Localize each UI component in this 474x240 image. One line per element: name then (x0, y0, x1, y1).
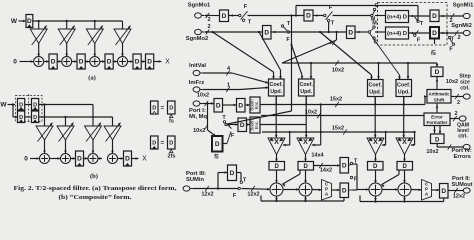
svg-text:Mi, Mq: Mi, Mq (189, 114, 207, 120)
svg-text:D: D (238, 102, 243, 109)
svg-text:2: 2 (329, 40, 332, 46)
svg-text:D: D (215, 141, 220, 148)
svg-text:10x2: 10x2 (446, 79, 458, 85)
svg-text:D: D (432, 30, 437, 37)
svg-text:D: D (147, 59, 152, 66)
svg-text:(a): (a) (88, 75, 96, 82)
svg-text:SUMin: SUMin (186, 177, 204, 183)
svg-text:2: 2 (457, 35, 460, 41)
svg-text:D: D (435, 69, 440, 76)
svg-text:15x2: 15x2 (332, 126, 344, 132)
svg-text:SgnMo2: SgnMo2 (186, 36, 209, 42)
svg-text:Formatter: Formatter (427, 120, 448, 126)
svg-text:10x2: 10x2 (193, 128, 205, 134)
svg-text:Coef.: Coef. (269, 82, 283, 88)
svg-text:Fig. 2. T/2-spaced filter. (a): Fig. 2. T/2-spaced filter. (a) Transpose… (14, 185, 177, 192)
svg-text:X: X (303, 139, 308, 146)
svg-text:ctrl.: ctrl. (460, 86, 470, 92)
svg-text:D: D (432, 13, 437, 20)
svg-text:Upd.: Upd. (270, 89, 282, 95)
svg-text:D: D (373, 164, 378, 170)
svg-text:SgnMo1: SgnMo1 (188, 3, 211, 9)
svg-text:Coef.: Coef. (397, 83, 411, 89)
svg-text:D: D (264, 29, 269, 36)
svg-text:Shift: Shift (434, 97, 445, 103)
svg-text:(b): (b) (90, 173, 98, 180)
svg-text:Enc.: Enc. (254, 121, 259, 130)
svg-text:ImFrz: ImFrz (189, 80, 205, 86)
svg-text:D: D (342, 187, 347, 194)
svg-text:0: 0 (13, 59, 17, 66)
svg-text:10x2: 10x2 (332, 68, 344, 74)
svg-text:1: 1 (227, 83, 230, 89)
svg-text:2: 2 (207, 24, 210, 30)
svg-text:D: D (169, 106, 173, 112)
svg-text:InitVal: InitVal (189, 63, 206, 69)
svg-text:D: D (27, 18, 32, 25)
svg-text:D: D (441, 188, 446, 195)
svg-text:D: D (435, 137, 440, 143)
svg-text:D: D (152, 106, 156, 112)
svg-text:12x2: 12x2 (247, 192, 259, 198)
svg-text:ctrl.: ctrl. (458, 134, 468, 140)
svg-text:D: D (306, 13, 311, 20)
svg-text:D: D (342, 162, 347, 169)
svg-text:Upd.: Upd. (300, 89, 312, 95)
svg-text:X: X (165, 59, 170, 66)
svg-text:D: D (403, 164, 408, 170)
svg-text:D: D (348, 29, 353, 36)
svg-text:D: D (77, 156, 82, 163)
svg-text:12x2: 12x2 (453, 194, 465, 200)
svg-text:M: M (371, 17, 376, 23)
svg-text:(n+4) D: (n+4) D (387, 31, 407, 37)
svg-text:Upd.: Upd. (398, 89, 410, 95)
svg-text:D: D (135, 59, 140, 66)
svg-text:SUMout: SUMout (452, 182, 473, 188)
svg-text:D: D (152, 141, 156, 147)
svg-text:Error: Error (431, 114, 443, 120)
svg-text:X: X (142, 156, 147, 163)
svg-text:D: D (230, 170, 235, 177)
svg-text:Upd.: Upd. (369, 89, 381, 95)
svg-text:fs: fs (431, 51, 436, 57)
svg-text:12x2: 12x2 (201, 192, 213, 198)
svg-text:D: D (51, 59, 56, 66)
svg-text:D: D (216, 102, 221, 109)
svg-text:D: D (169, 141, 173, 147)
svg-text:14x4: 14x4 (311, 153, 324, 159)
svg-text:W: W (0, 102, 7, 109)
svg-text:D: D (304, 164, 309, 170)
svg-text:C: C (374, 40, 378, 46)
svg-text:Errors: Errors (454, 154, 471, 160)
svg-text:0: 0 (24, 156, 28, 163)
svg-text:X: X (373, 139, 378, 146)
svg-text:Enc.: Enc. (254, 101, 259, 110)
svg-text:D: D (79, 59, 84, 66)
svg-text:10x2: 10x2 (197, 93, 209, 99)
svg-text:X: X (402, 139, 407, 146)
svg-text:SgnMi2: SgnMi2 (451, 23, 472, 29)
svg-text:10x2: 10x2 (305, 110, 317, 116)
svg-text:2: 2 (207, 17, 210, 23)
svg-text:D: D (125, 156, 130, 163)
svg-text:X: X (274, 139, 279, 146)
svg-text:Coef.: Coef. (368, 83, 382, 89)
svg-text:Arithmetic: Arithmetic (429, 91, 450, 97)
svg-text:15x2: 15x2 (330, 96, 342, 102)
svg-text:D: D (222, 13, 227, 20)
svg-text:fs: fs (214, 155, 219, 161)
svg-text:SgnMi1: SgnMi1 (453, 3, 474, 9)
svg-text:D: D (240, 122, 245, 129)
svg-text:D: D (107, 59, 112, 66)
svg-text:=: = (161, 141, 165, 147)
svg-text:fs: fs (169, 119, 174, 125)
svg-text:14x2: 14x2 (320, 168, 332, 174)
svg-text:Coef.: Coef. (299, 82, 313, 88)
svg-text:=: = (161, 106, 165, 112)
svg-text:10x2: 10x2 (426, 149, 438, 155)
svg-text:W: W (11, 18, 18, 25)
svg-text:D: D (275, 164, 280, 170)
svg-text:2: 2 (457, 100, 460, 106)
svg-text:2fs: 2fs (168, 154, 176, 160)
svg-text:2: 2 (454, 111, 457, 117)
svg-text:(b) “Composite” form.: (b) “Composite” form. (59, 194, 132, 201)
svg-text:(n+4) D: (n+4) D (387, 15, 407, 21)
